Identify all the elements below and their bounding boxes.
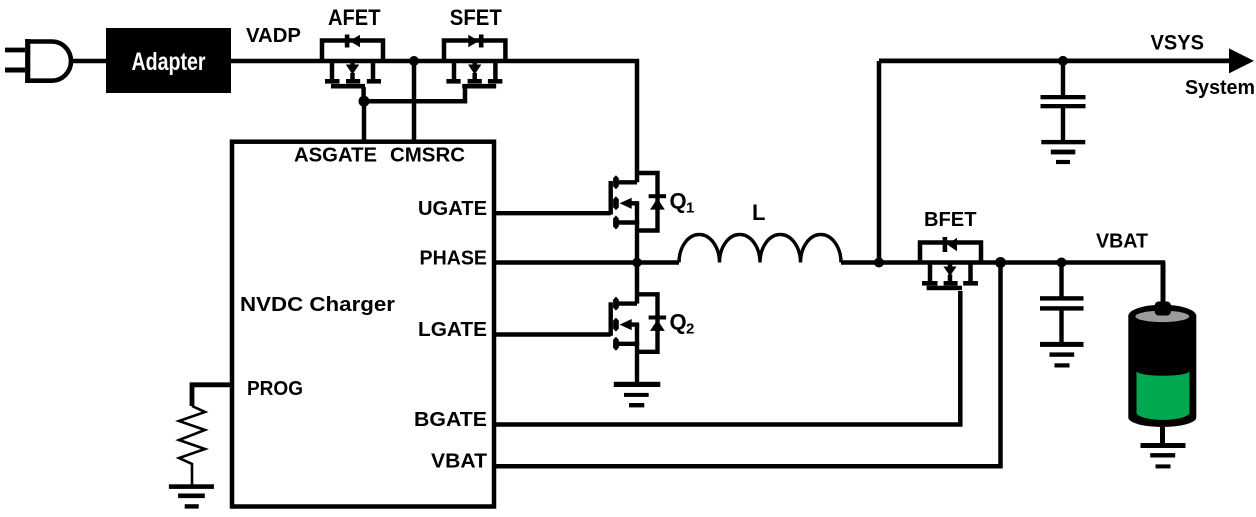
svg-text:PHASE: PHASE: [420, 248, 488, 270]
svg-text:2: 2: [686, 321, 694, 338]
svg-text:Q: Q: [670, 189, 687, 214]
svg-text:CMSRC: CMSRC: [390, 145, 465, 167]
svg-text:1: 1: [686, 200, 694, 217]
svg-text:Adapter: Adapter: [132, 48, 206, 76]
svg-text:BGATE: BGATE: [414, 409, 487, 431]
svg-text:ASGATE: ASGATE: [294, 145, 377, 167]
svg-text:VADP: VADP: [246, 25, 301, 47]
svg-text:VBAT: VBAT: [431, 451, 487, 473]
svg-text:L: L: [752, 200, 765, 225]
svg-text:VSYS: VSYS: [1151, 32, 1205, 55]
svg-text:Q: Q: [670, 310, 687, 335]
svg-text:System: System: [1185, 77, 1255, 99]
svg-text:VBAT: VBAT: [1096, 231, 1148, 253]
svg-text:BFET: BFET: [924, 209, 977, 231]
svg-text:UGATE: UGATE: [418, 198, 487, 220]
svg-text:AFET: AFET: [328, 5, 381, 30]
svg-text:NVDC Charger: NVDC Charger: [240, 294, 395, 316]
svg-text:PROG: PROG: [247, 378, 303, 400]
svg-text:LGATE: LGATE: [418, 319, 487, 341]
svg-text:SFET: SFET: [450, 5, 503, 30]
